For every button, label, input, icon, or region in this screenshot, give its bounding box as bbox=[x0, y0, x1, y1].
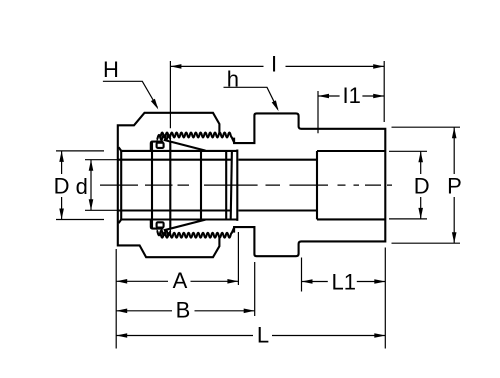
left D dim bbox=[56, 151, 104, 220]
svg-text:I1: I1 bbox=[343, 83, 361, 108]
thread zigzag top bbox=[160, 133, 235, 144]
ferrule top bbox=[151, 142, 164, 151]
right D dim bbox=[389, 151, 427, 219]
svg-text:P: P bbox=[447, 173, 462, 198]
d dim bbox=[85, 160, 118, 211]
svg-text:A: A bbox=[173, 268, 188, 293]
socket bbox=[317, 151, 385, 219]
thread overlap top bbox=[157, 135, 171, 140]
nut bbox=[118, 113, 220, 257]
svg-text:D: D bbox=[414, 173, 430, 198]
tube bbox=[121, 151, 237, 220]
L dim bbox=[116, 248, 385, 349]
bore lines bbox=[118, 160, 317, 211]
P dim bbox=[392, 127, 461, 243]
body shoulder bbox=[236, 150, 238, 221]
ferrule junction line bbox=[169, 142, 171, 229]
svg-text:I: I bbox=[271, 51, 277, 76]
B dim bbox=[116, 262, 255, 316]
svg-text:L1: L1 bbox=[332, 270, 356, 295]
tube end face bbox=[225, 151, 227, 220]
centerline bbox=[100, 184, 392, 186]
A dim bbox=[116, 232, 238, 285]
front ferrule nose bbox=[200, 151, 202, 220]
I dim bbox=[170, 61, 384, 128]
svg-text:H: H bbox=[103, 57, 119, 82]
svg-text:d: d bbox=[76, 174, 88, 199]
tube bore end bbox=[231, 151, 232, 220]
back ferrule rear face bbox=[151, 142, 153, 229]
svg-text:B: B bbox=[176, 297, 191, 322]
thread zigzag bottom bbox=[160, 227, 235, 238]
svg-text:D: D bbox=[54, 173, 70, 198]
body bbox=[234, 113, 385, 256]
thread overlap bottom bbox=[157, 230, 171, 235]
tube end chamfer bbox=[119, 147, 122, 223]
svg-text:L: L bbox=[257, 322, 269, 347]
L1 dim bbox=[302, 258, 386, 292]
I1 dim bbox=[318, 91, 384, 133]
ferrule bottom bbox=[151, 220, 164, 229]
